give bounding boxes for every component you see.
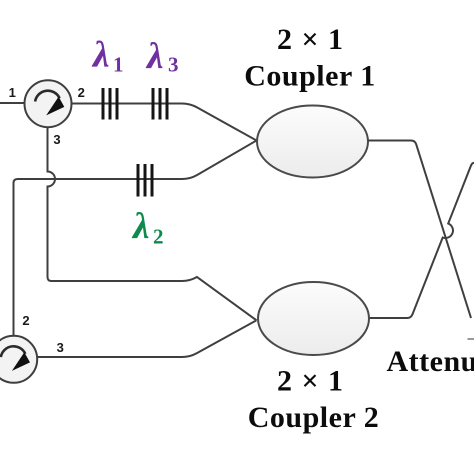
svg-text:λ: λ (131, 206, 149, 247)
FBG grating lambda1 (103, 88, 117, 120)
svg-text:λ: λ (145, 36, 163, 77)
svg-text:2 × 1: 2 × 1 (277, 23, 344, 56)
svg-text:1: 1 (9, 85, 16, 100)
svg-text:Attenuator: Attenuator (387, 345, 474, 378)
wire coupler2 output crossing up with hop (370, 163, 474, 318)
svg-text:1: 1 (113, 53, 124, 77)
svg-text:3: 3 (168, 53, 179, 77)
svg-text:3: 3 (53, 132, 60, 147)
FBG grating lambda3 (153, 88, 167, 120)
svg-text:2 × 1: 2 × 1 (277, 365, 344, 398)
circulator C2 (0, 336, 37, 383)
svg-text:Coupler 2: Coupler 2 (248, 401, 379, 434)
svg-text:3: 3 (57, 340, 64, 355)
attenuator stub (cropped) (468, 338, 474, 340)
FBG grating lambda2 (138, 164, 152, 197)
wire coupler1 output to attenuator (down diagonal) (368, 141, 471, 319)
circulator C1 (25, 80, 72, 127)
svg-text:2: 2 (78, 85, 85, 100)
wire port1 of circulator C1 (left lead) (0, 102, 25, 104)
svg-text:2: 2 (22, 313, 29, 328)
svg-text:2: 2 (153, 225, 164, 249)
wire C1 port3 vertical with hop, to coupler2 upper input (48, 127, 257, 320)
wire lambda2 line: left corner down to circulator C2, right to coupler1 lower input (14, 141, 257, 336)
coupler 2 ellipse (258, 282, 369, 355)
wire C2 port3 to coupler2 lower input (37, 320, 257, 357)
wire C1 port2 to coupler1 upper input (72, 104, 257, 141)
coupler 1 ellipse (257, 106, 368, 178)
svg-text:λ: λ (91, 35, 109, 76)
svg-text:Coupler 1: Coupler 1 (244, 60, 375, 93)
